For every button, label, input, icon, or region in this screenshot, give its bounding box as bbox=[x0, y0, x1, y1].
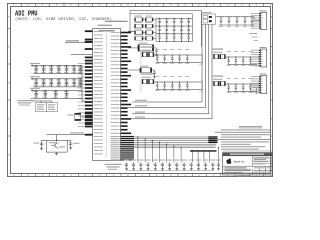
capacitor row C7351x bbox=[158, 26, 191, 35]
sheet border frame bbox=[7, 3, 273, 177]
connector J7301 bbox=[251, 47, 267, 67]
ground below Q7300 bbox=[55, 152, 58, 155]
net label text block bbox=[18, 100, 34, 105]
capacitor module bank row A left (LDO outputs) bbox=[141, 47, 203, 66]
wire module B to connector bbox=[258, 83, 260, 85]
inductor L7301 bbox=[135, 22, 144, 28]
capacitor bank C7301-C7307 bbox=[30, 63, 82, 74]
bus wires U7300 to modules bbox=[128, 100, 212, 119]
fuse F7301 bbox=[143, 22, 156, 28]
op-amp / PMU IC U7300 body bbox=[93, 21, 128, 161]
svg-text:Apple Inc.: Apple Inc. bbox=[234, 159, 246, 163]
svg-text:(NOTE: LDO, VIBE DRIVER, I2C,: (NOTE: LDO, VIBE DRIVER, I2C, CHARGER) bbox=[15, 17, 112, 22]
vertical stub wire bbox=[253, 87, 261, 94]
resistor R7305 bbox=[68, 113, 85, 120]
title block fields bbox=[225, 157, 273, 176]
transistor Q7300 box bbox=[46, 135, 67, 152]
bottom bus wires from U7300 bbox=[134, 136, 218, 151]
capacitor module bank row B left bbox=[141, 74, 203, 93]
capacitor C7340 bbox=[34, 141, 47, 150]
thermistor box RT7300 bbox=[36, 103, 47, 112]
capacitor row C7350x bbox=[158, 18, 191, 27]
title block frame bbox=[223, 151, 273, 175]
capacitor bank C7311-C7317 bbox=[30, 76, 82, 87]
fuse F7303 bbox=[143, 34, 156, 40]
vertical bus wires bbox=[202, 11, 213, 119]
capacitor row C7352x bbox=[158, 33, 191, 42]
inductor L7300 bbox=[135, 16, 144, 22]
thermistor box RT7301 bbox=[46, 103, 57, 112]
inductor L7303 bbox=[135, 34, 144, 40]
capacitor C7325 with ground bbox=[154, 48, 158, 56]
note text below U7300 bbox=[105, 164, 122, 170]
U7300 right pin pads and pin labels bbox=[111, 32, 135, 161]
capacitor bank C7321-C7324 bbox=[30, 88, 82, 99]
wire PP_BATT_VCC to U7300 left bbox=[65, 40, 93, 42]
capacitor module bank row A right bbox=[212, 49, 259, 68]
connector J7300 bbox=[251, 11, 267, 30]
capacitor row top-right C7370-C7373 bbox=[216, 17, 260, 27]
capacitor C7326 with ground bbox=[152, 70, 156, 78]
capacitor C7341 bbox=[67, 141, 79, 150]
capacitor module bank row B right bbox=[212, 76, 259, 95]
connector J7302 bbox=[251, 74, 267, 94]
fuse F7302 bbox=[143, 29, 156, 35]
wire U7300 to L7302 bbox=[128, 30, 135, 32]
resistor R7321 bbox=[128, 43, 154, 52]
top-right regulator box U7310 bbox=[201, 12, 215, 24]
bottom decoupling row C7380-C7392 bbox=[124, 160, 216, 171]
notes text block bbox=[215, 126, 271, 149]
wire bus from U7300 top to right bbox=[128, 11, 202, 32]
bus drop wires bbox=[137, 136, 219, 162]
wire rail to thermistor boxes bbox=[30, 98, 52, 102]
resistor R7322 bbox=[128, 66, 152, 73]
Apple logo bbox=[226, 158, 231, 164]
wire VBAT to U7300 lower left bbox=[46, 132, 92, 135]
bottom ground rail bbox=[126, 170, 214, 172]
U7300 left pin pads and pin labels bbox=[78, 30, 103, 154]
fuse F7300 bbox=[143, 16, 156, 22]
bottom decoupling capacitor C7393 bbox=[216, 160, 221, 171]
inductor L7302 bbox=[135, 29, 144, 35]
net stub labels right edge bbox=[250, 33, 259, 41]
wire module A to connector bbox=[258, 56, 260, 58]
wire to U7300 left pin bbox=[71, 53, 93, 55]
capacitor grid C7350-C7364 rails bbox=[156, 14, 193, 42]
wire cap-bank collector to U7300 bbox=[82, 66, 85, 102]
